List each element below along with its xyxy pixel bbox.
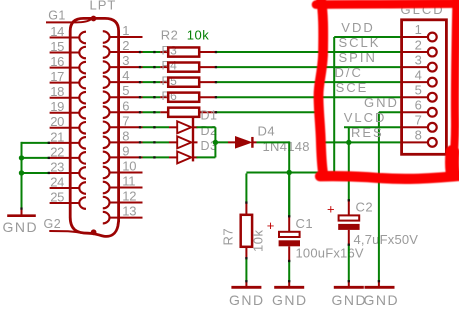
wire RES row: [320, 141, 402, 143]
wire resistor pin2 to GLCD: [215, 51, 401, 53]
svg-text:R2: R2: [161, 28, 179, 43]
svg-text:22: 22: [50, 144, 64, 159]
wire D4 cathode to corner: [257, 141, 290, 143]
pin G1 wire: [46, 19, 92, 22]
connector pin 1: [103, 23, 143, 43]
svg-text:GND: GND: [3, 219, 39, 235]
svg-text:VDD: VDD: [341, 20, 374, 35]
junction on shell bottom: [91, 229, 97, 235]
junction on shell top: [91, 16, 97, 22]
connector pin 10: [103, 158, 143, 178]
connector pin 21: [50, 129, 86, 148]
junction cathodes: [213, 140, 218, 145]
svg-text:SCE: SCE: [336, 80, 369, 95]
svg-text:10k: 10k: [187, 28, 209, 43]
svg-text:GND: GND: [364, 292, 400, 308]
connector pin 18: [50, 84, 86, 103]
wire cathodes to D4: [215, 141, 228, 143]
VDD rail horizontal: [246, 171, 334, 173]
svg-text:10k: 10k: [251, 230, 266, 252]
svg-text:4,7uFx50V: 4,7uFx50V: [354, 232, 419, 247]
wire VDD to GLCD pin1: [334, 36, 401, 38]
wire junction nibs: [139, 51, 141, 53]
cathode common bar: [192, 117, 194, 161]
GLCD pin 4: [402, 67, 437, 86]
connector pin 14: [50, 24, 86, 43]
VDD riser vertical: [333, 37, 335, 172]
ground symbol left: [7, 209, 36, 216]
svg-text:8: 8: [415, 128, 422, 143]
svg-text:G1: G1: [48, 9, 66, 23]
connector pin 2: [103, 38, 143, 58]
GLCD pin 5: [402, 82, 437, 101]
connector pin 23: [50, 159, 86, 178]
svg-text:14: 14: [50, 24, 64, 39]
connector pin 25: [50, 189, 86, 208]
svg-text:RES: RES: [351, 125, 384, 140]
connector pin 15: [50, 39, 86, 58]
connector pin 24: [50, 174, 86, 193]
GLCD pin 7: [402, 113, 437, 132]
svg-text:5: 5: [415, 82, 422, 97]
diode D1 on pin 7: [143, 109, 218, 134]
svg-text:1N4148: 1N4148: [263, 139, 310, 154]
svg-text:C2: C2: [356, 200, 374, 215]
connector pin 9: [103, 143, 143, 163]
connector pin 11: [103, 174, 143, 194]
GLCD pin 3: [402, 52, 437, 71]
connector pin 4: [103, 68, 143, 88]
svg-text:SCLK: SCLK: [339, 35, 381, 50]
svg-text:3: 3: [122, 53, 129, 68]
wire R7 to ground: [245, 258, 247, 282]
svg-text:D4: D4: [258, 124, 276, 139]
svg-text:+: +: [327, 202, 335, 217]
connector pin 13: [103, 204, 143, 224]
junction pin23 rail: [19, 170, 24, 175]
svg-text:3: 3: [415, 52, 422, 67]
capacitor C2: [338, 201, 359, 245]
wire GND riser: [378, 112, 380, 281]
svg-text:GND: GND: [364, 95, 399, 110]
svg-text:R7: R7: [221, 228, 236, 246]
connector pin 5: [103, 83, 143, 103]
svg-text:VLCD: VLCD: [344, 110, 387, 125]
wire pin21 to ground rail: [22, 142, 50, 144]
wire resistor pin6 output: [215, 111, 320, 113]
svg-text:12: 12: [122, 189, 136, 204]
svg-text:16: 16: [50, 54, 64, 69]
svg-text:SPIN: SPIN: [339, 50, 377, 65]
wire resistor pin5 to GLCD: [215, 96, 401, 98]
svg-text:5: 5: [122, 83, 129, 98]
svg-text:D1: D1: [201, 109, 218, 123]
resistor R4 on pin 3: [143, 59, 216, 73]
connector pin 16: [50, 54, 86, 73]
junction pin22 rail: [19, 155, 24, 160]
junction C1 feed: [287, 170, 292, 175]
svg-text:6: 6: [415, 97, 422, 112]
connector pin 7: [103, 113, 143, 133]
svg-text:21: 21: [50, 129, 64, 144]
svg-text:+: +: [267, 218, 275, 233]
svg-text:24: 24: [50, 174, 64, 189]
resistor R? on pin 6: [143, 108, 216, 117]
wire C2 to ground: [348, 244, 350, 281]
svg-text:4: 4: [122, 68, 129, 83]
wire hidden jog down: [319, 112, 321, 157]
svg-text:1: 1: [415, 22, 422, 37]
svg-text:8: 8: [122, 128, 129, 143]
svg-text:100uFx16V: 100uFx16V: [296, 246, 364, 261]
wire cathode vertical: [214, 127, 216, 157]
svg-text:15: 15: [50, 39, 64, 54]
ground symbol pin6: [365, 282, 395, 288]
ground symbol C2: [334, 282, 364, 288]
connector pin 6: [103, 98, 143, 118]
svg-text:GND: GND: [332, 292, 368, 308]
diode D3 on pin 9: [143, 139, 218, 164]
svg-text:GND: GND: [229, 292, 265, 308]
svg-text:7: 7: [415, 113, 422, 128]
svg-text:11: 11: [122, 174, 135, 189]
connector pin 3: [103, 53, 143, 73]
connector X1 LPT shell outline: [70, 18, 118, 236]
wire resistor pin3 to GLCD: [215, 66, 401, 68]
svg-text:1: 1: [122, 23, 129, 38]
GLCD pin 2: [402, 37, 437, 56]
diode D4: [228, 137, 257, 148]
svg-text:4: 4: [415, 67, 422, 82]
connector pin 8: [103, 128, 143, 148]
resistor R5 on pin 4: [143, 74, 216, 88]
ground symbol R7: [231, 282, 261, 288]
svg-text:2: 2: [415, 37, 422, 52]
GLCD pin 1: [402, 22, 437, 41]
svg-text:GND: GND: [272, 292, 308, 308]
connector GLCD box: [402, 20, 447, 155]
wire pin23 to ground rail: [22, 172, 50, 174]
junction RES/C2: [346, 140, 351, 145]
wire resistor pin4 to GLCD: [215, 81, 401, 83]
svg-text:D/C: D/C: [335, 65, 363, 80]
connector pin 22: [50, 144, 86, 163]
svg-text:17: 17: [50, 69, 64, 84]
wire VLCD corner down: [348, 127, 350, 200]
GLCD pin 8: [402, 128, 437, 147]
svg-text:23: 23: [50, 159, 64, 174]
svg-text:LPT: LPT: [90, 0, 117, 13]
svg-text:9: 9: [122, 143, 129, 158]
connector pin 19: [50, 99, 86, 118]
svg-text:18: 18: [50, 84, 64, 99]
connector pin 20: [50, 114, 86, 133]
wire D1 cathode: [197, 126, 216, 128]
wire corner down to VDD rail: [288, 141, 290, 217]
ground rail vertical: [21, 142, 23, 209]
svg-text:10: 10: [122, 158, 136, 173]
pin G2 wire: [49, 231, 82, 233]
wire D3 cathode: [197, 156, 216, 158]
GLCD pin 6: [402, 97, 437, 116]
svg-text:13: 13: [122, 204, 136, 219]
resistor R7: [241, 173, 252, 258]
connector pin 17: [50, 69, 86, 88]
resistor R3 on pin 2: [143, 44, 216, 58]
svg-text:20: 20: [50, 114, 64, 129]
svg-text:C1: C1: [296, 216, 314, 231]
wire GLCD pin6 GND: [379, 111, 402, 113]
resistor R6 on pin 5: [143, 89, 216, 103]
svg-text:25: 25: [50, 189, 64, 204]
svg-text:G2: G2: [44, 217, 62, 231]
ground symbol C1: [274, 282, 304, 288]
svg-text:2: 2: [122, 38, 129, 53]
svg-text:7: 7: [122, 113, 129, 128]
capacitor C1: [279, 173, 300, 260]
connector pin 12: [103, 189, 143, 209]
wire pin22 to ground rail: [22, 157, 50, 159]
svg-text:19: 19: [50, 99, 64, 114]
wire VLCD row: [344, 126, 402, 128]
diode D2 on pin 8: [143, 124, 218, 149]
svg-text:6: 6: [122, 98, 129, 113]
wire C1 to ground: [288, 261, 290, 282]
